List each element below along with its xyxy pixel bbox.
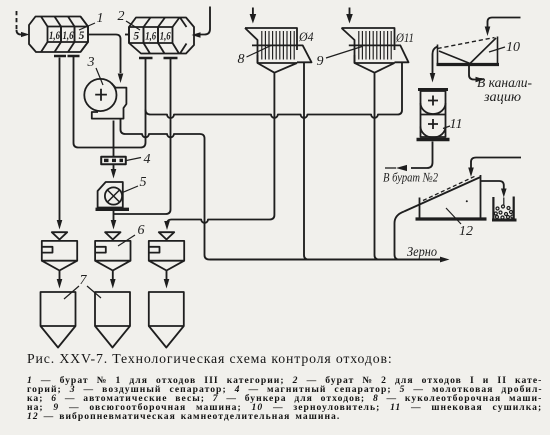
separator feed arrowhead: [118, 74, 124, 84]
wire H1: sieve 9 tail return to burat 2 (with hop-unders): [146, 63, 403, 118]
wire: machine 12 left output to grain bus: [395, 212, 405, 260]
wire: sieve 8 tail down to grain bus: [304, 62, 309, 259]
wire P1: burat2 right pipe down, turn left into scale-2 feed: [114, 59, 171, 215]
scale U6b: [95, 232, 130, 270]
grain catcher U10 (trough): [437, 37, 500, 65]
label 6: [118, 223, 145, 246]
wire: burat1 right pipe + burat2 left pipe collector to magnet line: [74, 57, 146, 148]
bunker U7c: [149, 292, 184, 348]
wire: mill 5 to scale 2 arrow: [113, 211, 115, 220]
hammer mill U5: [96, 182, 130, 209]
speck inside machine 12: [466, 200, 468, 202]
svg-text:5: 5: [79, 30, 85, 42]
svg-text:2: 2: [118, 9, 125, 24]
wire: separator 4 to mill 5 with arrow: [113, 165, 115, 170]
magnetic separator U4: [101, 157, 126, 165]
label 10: [489, 40, 520, 55]
label 3: [87, 55, 104, 85]
svg-text:3: 3: [87, 55, 95, 70]
svg-text:6: 6: [138, 223, 145, 238]
wire: separator 3 outlet down to magnetic separator 4: [113, 121, 115, 157]
svg-text:Ø11: Ø11: [395, 30, 414, 45]
burat 1 cell labels: [49, 30, 85, 42]
screw dryer U11: [417, 90, 450, 140]
svg-text:Ø4: Ø4: [298, 29, 314, 44]
label 11: [443, 117, 462, 132]
label 4: [127, 152, 151, 167]
wire: dryer 11 to burat 2 (left arrow): [411, 142, 433, 169]
svg-text:11: 11: [450, 117, 463, 132]
burat 2 cell labels: [133, 30, 171, 42]
svg-text:В бурат №2: В бурат №2: [383, 170, 438, 185]
svg-text:Зерно: Зерно: [407, 244, 437, 259]
label 9: [317, 47, 363, 70]
stone separator U12: [404, 175, 487, 219]
bunker U7a: [41, 292, 76, 348]
label 1: [79, 11, 104, 30]
wire: feed into burat 2 from top right: [200, 7, 210, 35]
label 2: [118, 9, 141, 30]
wire: burat outputs (cells 5) merge down to separator 3: [88, 35, 121, 74]
sieve U8 feed arrow: [252, 8, 254, 15]
wire H2: separator 3 relief to grain bus (hops, corner down, join bus): [121, 119, 210, 260]
label 12: [446, 208, 473, 239]
svg-text:5: 5: [133, 30, 139, 42]
burat U2 input arrowhead: [192, 32, 201, 38]
svg-text:7: 7: [80, 273, 88, 288]
wire: feed into burat 1 (dashed drop + arrow): [16, 11, 18, 30]
burat 2 pipe flanges: [139, 57, 178, 60]
stones cup: [492, 197, 517, 221]
svg-text:зацию: зацию: [483, 89, 522, 104]
svg-text:12: 12: [459, 224, 473, 239]
burat U1 input arrowhead: [21, 32, 30, 37]
svg-text:1,6: 1,6: [49, 30, 60, 42]
svg-text:9: 9: [317, 54, 324, 69]
wire: burat1 left pipe down to scale 1: [59, 58, 61, 221]
wire: trough 10 to dryer 11: [433, 47, 438, 74]
svg-text:1,6: 1,6: [160, 30, 171, 42]
wire P2: sieve 8 outlet down-left to scale 3 arrow: [167, 73, 274, 224]
bunker U7b: [95, 292, 130, 348]
text: to sewer: [477, 75, 532, 104]
label 7: [64, 273, 101, 299]
wire: machine 12 to stones cup: [481, 181, 504, 189]
air separator U3 (fan circle + volute): [84, 79, 126, 119]
wire: feed into trough 10: [488, 18, 521, 28]
sieve U8 (cockle machine, Ø4): [245, 28, 312, 73]
wire: sieve 9 outlet down to grain bus: [375, 73, 380, 260]
grain bus to Зерно arrow: [210, 259, 441, 261]
wire: feed into machine 12: [471, 158, 521, 169]
svg-text:10: 10: [506, 40, 520, 55]
svg-text:8: 8: [238, 52, 245, 67]
label 8: [238, 46, 272, 68]
svg-text:1: 1: [97, 11, 104, 26]
label 5: [123, 175, 147, 193]
wire: trough 10 to sewer arrow: [469, 66, 476, 80]
wire: scales to bunkers arrows: [60, 271, 167, 280]
svg-text:1,6: 1,6: [63, 30, 74, 42]
svg-text:4: 4: [144, 152, 151, 167]
scale U6c: [149, 232, 184, 270]
sieve U9 (oat-sorting machine, Ø11): [342, 28, 409, 73]
scale U6a: [42, 232, 77, 270]
burat 1 (drum, cells 1,6/1,6/5): [29, 17, 88, 53]
svg-text:1,6: 1,6: [145, 30, 156, 42]
sieve U9 feed arrow: [349, 8, 351, 15]
svg-text:В канали-: В канали-: [477, 75, 532, 90]
burat 1 pipe flanges: [54, 55, 80, 58]
burat 2 (drum, cells 5/1,6/1,6): [129, 18, 194, 54]
svg-text:5: 5: [140, 175, 147, 190]
